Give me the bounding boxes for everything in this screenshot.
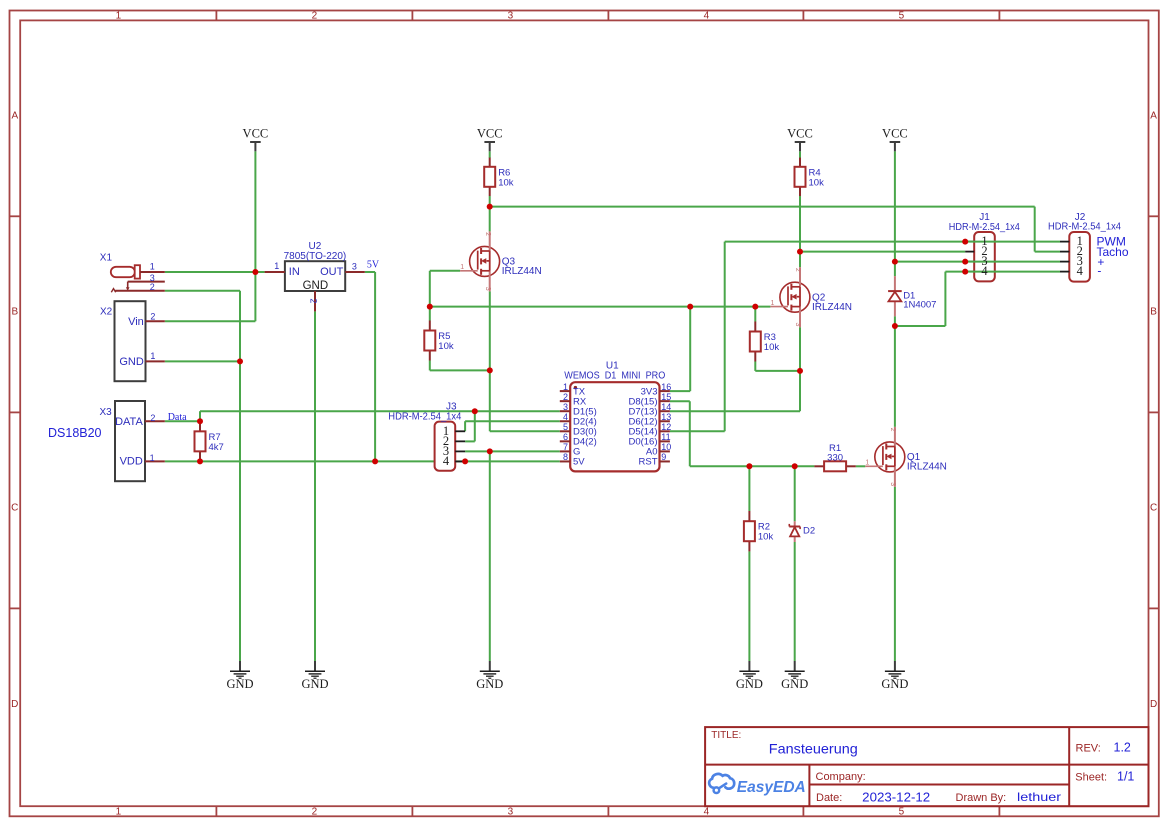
junction R7/VDD: [197, 458, 203, 464]
wire VCC net at D1/Q1: [894, 151, 896, 276]
svg-text:6: 6: [563, 432, 568, 442]
svg-text:4: 4: [443, 454, 450, 468]
svg-text:2023-12-12: 2023-12-12: [862, 789, 930, 804]
wire X3 DATA to R7: [165, 420, 200, 422]
wire VCC to R4: [799, 151, 801, 158]
wire Q3 source down to D3(0): [489, 291, 491, 431]
svg-text:10: 10: [661, 442, 671, 452]
wire J3 pin2 stub link: [465, 440, 475, 442]
junction R6/Q3 drain: [487, 204, 493, 210]
wire VCC to R6: [489, 151, 491, 158]
wire to U1 D2(4): [465, 420, 560, 422]
U1 pin 6 stub: [560, 440, 570, 442]
wire J3 pin1 riser: [464, 421, 466, 431]
J3 pin 4 stub: [455, 460, 465, 462]
wire X2 Vin to VCC line: [165, 320, 256, 322]
junction J1.1: [962, 239, 968, 245]
U1 pin 14 stub: [660, 410, 670, 412]
wire Q2 drain to J1 pin2: [800, 251, 965, 253]
svg-text:2: 2: [150, 311, 155, 321]
diode D1: [888, 276, 902, 316]
svg-text:10k: 10k: [809, 177, 825, 188]
wire G net down to GND: [489, 451, 491, 661]
wire 5V net vertical: [374, 272, 376, 461]
resistor R4: [799, 158, 801, 167]
power VCC symbol 3: [787, 127, 813, 152]
wire Tacho- riser: [944, 272, 946, 326]
svg-text:GND: GND: [119, 356, 144, 368]
wire Data net to U1 D1(5): [200, 410, 560, 412]
svg-text:1/1: 1/1: [1117, 770, 1134, 784]
svg-text:HDR-M-2.54_1x4: HDR-M-2.54_1x4: [1048, 222, 1121, 233]
wire R4 to Q2 drain: [799, 196, 801, 267]
svg-text:2: 2: [563, 392, 568, 402]
title block: [705, 727, 1148, 806]
ground symbol 4: [736, 661, 763, 691]
junction VCC/X1.1: [252, 269, 258, 275]
svg-text:3: 3: [563, 402, 568, 412]
wire U1 3V3: [670, 390, 690, 392]
svg-text:3: 3: [484, 287, 491, 291]
svg-text:IRLZ44N: IRLZ44N: [907, 462, 947, 473]
J2 pin 2 stub: [1060, 251, 1069, 253]
frame column ticks top: [216, 11, 999, 21]
connector X1: [111, 265, 165, 292]
svg-text:3: 3: [794, 323, 801, 327]
wire X1 pin2 horizontal: [165, 290, 240, 292]
svg-text:3: 3: [508, 10, 514, 21]
J1 pin 1 stub: [965, 241, 974, 243]
svg-text:RST: RST: [639, 457, 658, 468]
frame row labels left: [11, 110, 18, 710]
svg-text:X1: X1: [100, 253, 113, 264]
wire D7 riser to Q2 source: [799, 371, 801, 411]
junction Q2 source/D7: [797, 368, 803, 374]
wire R2 top: [748, 466, 750, 511]
svg-text:2: 2: [150, 282, 155, 292]
svg-text:330: 330: [827, 453, 843, 464]
svg-text:7: 7: [563, 442, 568, 452]
power VCC symbol 1: [243, 127, 269, 152]
svg-text:-: -: [1097, 263, 1101, 277]
svg-text:GND: GND: [303, 280, 329, 292]
svg-text:lethuer: lethuer: [1017, 790, 1061, 804]
wire D8 riser down: [689, 401, 691, 466]
svg-text:Data: Data: [168, 412, 187, 423]
wire VCC through J1 to J2 pin3: [895, 261, 1060, 263]
J3 pin 1 stub: [455, 430, 465, 432]
U1 pin 11 stub: [660, 440, 670, 442]
ground symbol 6: [881, 661, 908, 691]
wire 3V3 riser to gate net: [689, 307, 691, 392]
wire R2 bottom to GND: [748, 551, 750, 661]
svg-text:2: 2: [312, 10, 318, 21]
wire through J1 to J2 pin4: [945, 271, 1060, 273]
svg-text:HDR-M-2.54_1x4: HDR-M-2.54_1x4: [388, 411, 461, 422]
svg-text:3: 3: [889, 482, 896, 486]
svg-text:VDD: VDD: [120, 456, 143, 468]
junction Q2 drain/J1.2: [797, 249, 803, 255]
svg-text:GND: GND: [226, 677, 253, 691]
svg-text:1: 1: [150, 261, 155, 271]
X2 pin 1 stub: [146, 360, 165, 362]
svg-text:GND: GND: [301, 677, 328, 691]
power VCC symbol 2: [477, 127, 503, 152]
wire gate net long horizontal to Q2 gate: [430, 306, 771, 308]
svg-text:VCC: VCC: [787, 127, 813, 141]
svg-text:Date:: Date:: [816, 792, 842, 804]
svg-text:1: 1: [460, 264, 464, 271]
svg-text:11: 11: [661, 432, 670, 442]
J2 pin 3 stub: [1060, 261, 1069, 263]
X2 pin 2 stub: [146, 320, 165, 322]
svg-text:D: D: [1150, 699, 1157, 710]
svg-text:10k: 10k: [498, 177, 514, 188]
frame column labels bottom: [116, 807, 905, 818]
frame column labels top: [116, 10, 905, 21]
junction DATA/R7: [197, 418, 203, 424]
svg-text:2: 2: [889, 428, 896, 432]
junction R3 top: [752, 304, 758, 310]
wire R5 bottom: [429, 361, 431, 371]
regulator U2 body: [285, 261, 345, 291]
svg-text:VCC: VCC: [477, 127, 503, 141]
wire D1 anode to riser: [895, 325, 946, 327]
wire J3 pin3 to U1 G: [465, 450, 560, 452]
svg-text:C: C: [11, 502, 18, 513]
ground symbol 3: [476, 661, 503, 691]
svg-text:2: 2: [308, 298, 318, 303]
svg-text:4: 4: [704, 807, 710, 818]
svg-text:IN: IN: [289, 266, 300, 278]
ground symbol 1: [226, 661, 253, 691]
junction Q3 gate/R5: [427, 304, 433, 310]
wire Data riser: [199, 411, 201, 421]
svg-text:Vin: Vin: [128, 316, 144, 328]
svg-text:3: 3: [352, 261, 357, 271]
svg-text:13: 13: [661, 412, 671, 422]
header J3 body: [435, 422, 456, 471]
U1 pin 13 stub: [660, 420, 670, 422]
wire D1 anode down to Q1 drain: [894, 316, 896, 427]
U2 pin 3 stub: [345, 271, 365, 273]
svg-text:1.2: 1.2: [1114, 741, 1131, 755]
svg-text:HDR-M-2.54_1x4: HDR-M-2.54_1x4: [949, 222, 1020, 233]
junction J1.4: [962, 269, 968, 275]
transistor Q2: [770, 267, 810, 327]
svg-text:1: 1: [116, 807, 122, 818]
svg-text:D2: D2: [803, 526, 815, 537]
wire PWM riser: [724, 242, 726, 432]
svg-text:C: C: [1150, 502, 1157, 513]
junction D1/Tacho-: [892, 323, 898, 329]
resistor R3: [754, 322, 756, 332]
U1 pin 4 stub: [560, 420, 570, 422]
svg-text:1: 1: [150, 453, 155, 463]
junction VCC/D1/J1.3: [892, 259, 898, 265]
svg-text:15: 15: [661, 392, 671, 402]
wire PWM through J1 to J2 pin1: [965, 241, 1060, 243]
svg-text:2: 2: [484, 232, 491, 236]
U1 pin 1 stub: [560, 390, 570, 392]
wire Q2 source down: [799, 327, 801, 371]
junction Data/J3.2: [472, 408, 478, 414]
U1 pin 2 stub: [560, 400, 570, 402]
X3 pin 2 stub: [145, 420, 165, 422]
U1 pin 15 stub: [660, 400, 670, 402]
svg-text:Sheet:: Sheet:: [1075, 771, 1107, 783]
svg-text:5: 5: [899, 807, 905, 818]
svg-text:8: 8: [563, 452, 568, 462]
X3 pin 1 stub: [145, 460, 165, 462]
svg-text:GND: GND: [781, 677, 808, 691]
frame row ticks right: [1149, 216, 1159, 608]
svg-text:VCC: VCC: [882, 127, 908, 141]
U1 pin 8 stub: [560, 460, 570, 462]
resistor R2: [748, 511, 750, 521]
wire D2 anode to GND: [794, 542, 796, 661]
resistor R5: [429, 321, 431, 331]
svg-text:10k: 10k: [764, 342, 780, 353]
frame row labels right: [1150, 110, 1157, 710]
U1 pin 16 stub: [660, 390, 670, 392]
wire to J2 pin2: [1035, 251, 1060, 253]
ground symbol 5: [781, 661, 808, 691]
wire VCC net vertical at X1/X2: [254, 151, 256, 321]
junction R2 top: [746, 463, 752, 469]
ground symbol 2: [301, 661, 328, 691]
svg-text:X2: X2: [100, 307, 113, 318]
svg-text:1: 1: [150, 351, 155, 361]
svg-text:A: A: [11, 110, 18, 121]
transistor Q3: [460, 231, 500, 291]
svg-text:Fansteuerung: Fansteuerung: [769, 741, 858, 757]
svg-text:VCC: VCC: [243, 127, 269, 141]
svg-text:IRLZ44N: IRLZ44N: [502, 266, 542, 277]
junction X2.GND: [237, 358, 243, 364]
microcontroller U1 body: [570, 382, 659, 471]
wire U1 D5(14): [670, 430, 725, 432]
frame column ticks bottom: [216, 806, 999, 816]
junction R5/Q3 source: [487, 367, 493, 373]
wire Q3 gate down: [429, 271, 431, 307]
svg-text:5: 5: [899, 10, 905, 21]
svg-text:4k7: 4k7: [209, 442, 224, 453]
svg-text:IRLZ44N: IRLZ44N: [812, 302, 852, 313]
connector X2 body: [115, 301, 146, 381]
svg-text:16: 16: [661, 382, 671, 392]
wire U1 D8(15): [670, 400, 690, 402]
svg-text:B: B: [1150, 306, 1157, 317]
U1 pin 3 stub: [560, 410, 570, 412]
svg-text:GND: GND: [736, 677, 763, 691]
svg-text:4: 4: [704, 10, 710, 21]
svg-text:DATA: DATA: [115, 416, 143, 428]
wire R1 to Q1 gate: [856, 465, 866, 467]
svg-text:4: 4: [981, 264, 988, 278]
wire R6/Q3 drain net long horizontal: [490, 206, 1035, 208]
wire to U1 D3(0): [490, 430, 560, 432]
svg-text:GND: GND: [881, 677, 908, 691]
junction 5V riser: [372, 458, 378, 464]
svg-text:Company:: Company:: [816, 771, 866, 783]
resistor R1: [814, 465, 824, 467]
wire drain net riser to J2 pin2: [1034, 207, 1036, 252]
U1 pin 10 stub: [660, 450, 670, 452]
wire D8 net to R1: [690, 465, 815, 467]
J2 pin 1 stub: [1060, 241, 1069, 243]
EasyEDA logo: [709, 774, 806, 796]
resistor R7: [199, 421, 201, 431]
svg-text:D: D: [11, 699, 18, 710]
wire U2 OUT: [365, 271, 375, 273]
U1 pin 1 marker: [574, 386, 577, 389]
svg-text:4: 4: [563, 412, 568, 422]
wire J3 pin2 riser to Data net: [474, 411, 476, 441]
svg-text:GND: GND: [476, 677, 503, 691]
svg-text:1N4007: 1N4007: [903, 300, 936, 311]
wire PWM to J1 pin1: [725, 241, 966, 243]
diode D2: [789, 521, 800, 542]
wire R5 bottom to Q3 source line: [430, 369, 490, 371]
wire R6 to Q3 drain: [489, 196, 491, 231]
svg-text:10k: 10k: [438, 341, 454, 352]
svg-text:12: 12: [661, 422, 671, 432]
svg-text:1: 1: [563, 382, 568, 392]
wire X1 pin1 to U2 IN: [165, 271, 265, 273]
wire 5V/VDD horizontal: [165, 460, 560, 462]
svg-text:Drawn By:: Drawn By:: [956, 792, 1007, 804]
J2 pin 4 stub: [1060, 271, 1069, 273]
svg-text:2: 2: [794, 268, 801, 272]
svg-text:OUT: OUT: [320, 266, 344, 278]
svg-text:7805(TO-220): 7805(TO-220): [284, 251, 347, 262]
wire U1 D7(13): [670, 410, 800, 412]
svg-text:1: 1: [865, 460, 869, 467]
svg-text:10k: 10k: [758, 532, 774, 543]
wire R3 top to gate net: [754, 307, 756, 322]
svg-text:A: A: [1150, 110, 1157, 121]
wire D2 cathode up: [794, 466, 796, 521]
header J1 body: [974, 232, 995, 281]
svg-text:1: 1: [116, 10, 122, 21]
svg-text:B: B: [11, 306, 18, 317]
svg-text:2: 2: [150, 413, 155, 423]
junction D2 top: [792, 463, 798, 469]
J3 pin 2 stub: [455, 440, 465, 442]
connector X3 body: [115, 401, 145, 481]
J1 pin 2 stub: [965, 251, 974, 253]
U1 pin 5 stub: [560, 430, 570, 432]
junction J3.4/5V: [462, 458, 468, 464]
svg-text:2: 2: [312, 807, 318, 818]
svg-text:9: 9: [661, 452, 666, 462]
wire R3 bottom to Q2 source node: [755, 370, 800, 372]
wire Q3 gate: [430, 270, 460, 272]
svg-text:DS18B20: DS18B20: [48, 426, 102, 440]
U2 pin 1 stub: [265, 271, 285, 273]
junction G/GND: [487, 448, 493, 454]
svg-text:5: 5: [563, 422, 568, 432]
J3 pin 3 stub: [455, 450, 465, 452]
wire X2 GND to GND line: [165, 360, 240, 362]
svg-text:5V: 5V: [367, 260, 380, 271]
U2 pin 2 stub: [314, 291, 316, 311]
svg-text:1: 1: [274, 261, 279, 271]
power VCC symbol 4: [882, 127, 908, 152]
svg-text:WEMOS D1 MINI PRO: WEMOS D1 MINI PRO: [564, 371, 665, 382]
svg-text:14: 14: [661, 402, 671, 412]
wire Q1 source to GND: [894, 487, 896, 661]
J1 pin 3 stub: [965, 261, 974, 263]
svg-text:1: 1: [771, 300, 775, 307]
wire R3 bottom: [754, 362, 756, 371]
junction J1.3: [962, 259, 968, 265]
U1 pin 9 stub: [660, 460, 670, 462]
svg-text:REV:: REV:: [1076, 742, 1101, 754]
J1 pin 4 stub: [965, 271, 974, 273]
wire U2 GND pin down to GND: [314, 311, 316, 661]
wire to R5 top: [429, 307, 431, 321]
U1 pin 7 stub: [560, 450, 570, 452]
svg-text:4: 4: [1077, 264, 1084, 278]
resistor R6: [489, 158, 491, 167]
frame row ticks left: [10, 216, 21, 608]
svg-text:5V: 5V: [573, 457, 585, 468]
header J2 body: [1069, 232, 1090, 282]
junction 3V3/gate net: [687, 304, 693, 310]
wire X1 pin2 down to GND: [239, 291, 241, 661]
svg-text:3: 3: [508, 807, 514, 818]
transistor Q1: [865, 427, 905, 487]
U1 pin 12 stub: [660, 430, 670, 432]
svg-text:EasyEDA: EasyEDA: [737, 779, 806, 796]
svg-text:TITLE:: TITLE:: [711, 730, 741, 741]
svg-text:X3: X3: [100, 407, 113, 418]
